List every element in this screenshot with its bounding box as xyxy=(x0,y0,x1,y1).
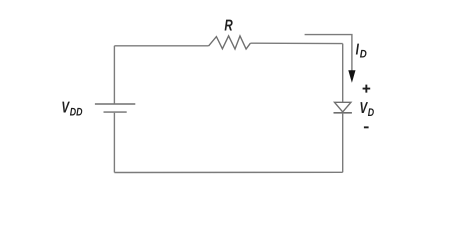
current arrow I_D label xyxy=(356,42,360,59)
wire left vertical upper xyxy=(113,46,115,104)
wire right vertical upper xyxy=(342,44,344,103)
battery V_DD plate short xyxy=(104,111,127,113)
svg-text:I: I xyxy=(356,42,360,59)
wire right vertical lower xyxy=(342,114,344,173)
diode D1 cathode bar xyxy=(334,112,352,114)
battery V_DD plate long xyxy=(95,103,135,105)
svg-text:V: V xyxy=(61,100,70,117)
resistor R1 zigzag xyxy=(209,36,251,49)
diode minus polarity mark xyxy=(364,126,369,128)
current arrow I_D wire xyxy=(305,35,352,71)
diode plus polarity mark xyxy=(363,85,371,93)
svg-text:DD: DD xyxy=(70,107,83,119)
resistor R1 label R xyxy=(224,18,233,35)
wire top-right horizontal xyxy=(250,42,342,44)
diode D1 triangle xyxy=(335,102,351,112)
wire top-left horizontal xyxy=(114,45,208,47)
current arrow I_D head xyxy=(348,70,355,83)
svg-text:D: D xyxy=(360,48,367,60)
diode V_D label xyxy=(360,100,369,117)
svg-text:D: D xyxy=(368,107,374,119)
battery V_DD label xyxy=(61,100,70,117)
svg-text:R: R xyxy=(224,18,233,35)
wire bottom horizontal xyxy=(114,171,342,173)
wire left vertical lower xyxy=(113,113,115,173)
